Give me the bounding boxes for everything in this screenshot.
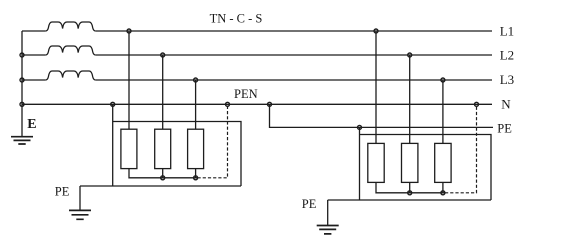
load resistor box1-R3 <box>188 129 204 168</box>
load box 2 enclosure <box>328 127 491 200</box>
wire dashed N link box2 <box>445 104 477 193</box>
winding T1 phase L1 <box>46 22 96 31</box>
wire drop L3 to load2 <box>442 80 444 143</box>
load box 1 enclosure <box>80 104 241 186</box>
svg-text:L1: L1 <box>500 24 514 39</box>
node L2-drop2 <box>408 53 412 57</box>
node L2-drop1 <box>161 53 165 57</box>
svg-text:PEN: PEN <box>234 87 258 101</box>
load resistor box2-R1 <box>368 143 384 182</box>
svg-text:TN - C - S: TN - C - S <box>210 11 263 25</box>
wire load1 neutral bus <box>129 169 198 178</box>
node bus-PEN <box>20 102 24 106</box>
winding T1 phase L3 <box>46 71 96 80</box>
winding T1 phase L2 <box>46 46 96 55</box>
wire PE branch from PEN <box>270 104 494 127</box>
svg-text:L2: L2 <box>500 48 514 63</box>
load resistor box2-R2 <box>402 143 418 182</box>
svg-text:E: E <box>27 117 36 132</box>
node L3-drop2 <box>441 78 445 82</box>
wire left vertical bus <box>21 31 23 136</box>
node PEN-dash1 <box>226 102 230 106</box>
wire PEN/N line <box>22 103 492 105</box>
ground E <box>11 137 33 144</box>
node PEN-split <box>268 102 272 106</box>
load resistor box1-R2 <box>155 129 171 168</box>
node N-dash2 <box>475 102 479 106</box>
wire drop L2 to load2 <box>409 55 411 143</box>
node L1-drop2 <box>374 29 378 33</box>
node bus-L3 <box>20 78 24 82</box>
wire drop L1 to load1 <box>128 31 130 129</box>
wire dashed PEN link box1 <box>198 104 228 178</box>
svg-text:PE: PE <box>55 184 70 198</box>
svg-text:PE: PE <box>302 197 317 211</box>
wire drop L3 to load1 <box>195 80 197 129</box>
node L1-drop1 <box>127 29 131 33</box>
node bus1-R2 <box>161 176 165 180</box>
wire PE lead load1 <box>79 186 81 210</box>
wire load2 neutral bus <box>376 182 445 192</box>
wire drop L2 to load1 <box>162 55 164 129</box>
node PE-box2 <box>358 125 362 129</box>
wire L2 line <box>22 54 492 56</box>
wire drop L1 to load2 <box>375 31 377 143</box>
load resistor box1-R1 <box>121 129 137 168</box>
node L3-drop1 <box>194 78 198 82</box>
wire L3 line <box>22 79 492 81</box>
node PEN-box1 <box>111 102 115 106</box>
node bus-L2 <box>20 53 24 57</box>
node bus2-R2 <box>408 191 412 195</box>
svg-text:L3: L3 <box>500 72 514 87</box>
ground PE load2 <box>317 226 339 234</box>
node bus1-R3 <box>194 176 198 180</box>
wire PE lead load2 <box>327 200 329 226</box>
load resistor box2-R3 <box>435 143 451 182</box>
svg-text:N: N <box>501 97 511 112</box>
svg-text:PE: PE <box>497 121 512 135</box>
ground PE load1 <box>69 210 91 219</box>
wire L1 line <box>22 30 492 32</box>
node bus2-R3 <box>441 191 445 195</box>
